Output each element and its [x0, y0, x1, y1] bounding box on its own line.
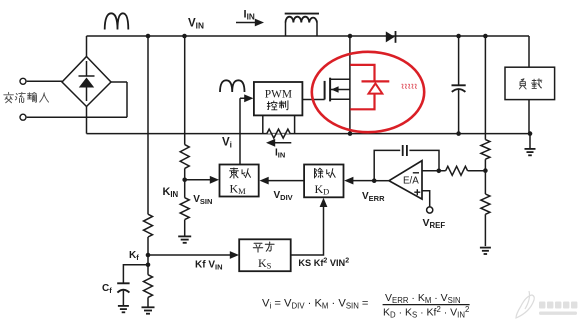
capacitor C out: [458, 36, 460, 134]
wire squarer to divider: [291, 204, 324, 255]
wire EA inverting input: [422, 170, 446, 172]
resistor KIN: [180, 145, 189, 169]
squarer box 平方 KS: [239, 239, 291, 271]
waveform rectified-sine icon small: [220, 80, 245, 92]
capacitor Cf: [117, 282, 129, 284]
node EA inverting input junction: [437, 169, 442, 174]
resistor Kf lower: [144, 275, 153, 298]
wire ground stub right: [529, 134, 531, 149]
node VERR junction: [372, 178, 377, 183]
wire VERR to divider: [350, 180, 374, 182]
ground divider: [480, 247, 491, 249]
wire EA feedback loop: [374, 150, 439, 180]
resistor VSIN: [180, 198, 189, 220]
capacitor EA feedback: [402, 145, 404, 156]
PWM controller box: [254, 82, 303, 115]
node bottom rail junctions: [528, 131, 533, 136]
wire EA noninverting to VREF: [422, 191, 430, 207]
divider box 除以 KD: [304, 165, 343, 198]
resistor divider upper: [481, 140, 490, 160]
node output divider tap: [483, 168, 488, 173]
transistor Q MOSFET: [349, 36, 351, 134]
waveform rectified-sine icon top: [105, 13, 129, 29]
wire top rail VIN: [87, 36, 530, 57]
svg-text:PWM: PWM: [265, 88, 292, 100]
red body diode: [362, 80, 390, 82]
wire AC bottom lead: [27, 82, 127, 117]
wire VSIN to multiplier: [185, 179, 213, 181]
op-amp E/A: [389, 161, 422, 200]
wire PWM sense legs: [263, 115, 295, 133]
wire EA output VERR node: [374, 180, 389, 182]
wire Vi multiplier output to PWM: [240, 98, 247, 164]
wire output divider: [484, 36, 486, 246]
wire bottom return rail: [87, 107, 531, 134]
svg-text:KD · KS · Kf2 · VIN2: KD · KS · Kf2 · VIN2: [383, 305, 469, 320]
AC terminal top: [20, 78, 26, 84]
bridge inner diode: [79, 61, 95, 101]
VREF terminal: [427, 207, 433, 213]
diode D boost: [386, 31, 395, 42]
wire VDIV divider to multiplier: [265, 180, 304, 182]
watermark logo: [516, 291, 534, 318]
red highlight ellipse: [312, 52, 424, 132]
node VSIN tap: [182, 178, 187, 183]
wire AC top lead: [27, 80, 62, 82]
node Kf tap: [146, 253, 151, 258]
AC terminal bottom: [20, 114, 26, 120]
svg-text:E/A: E/A: [403, 175, 419, 186]
wire Kf branch: [147, 36, 149, 307]
EA minus sign: [413, 172, 419, 174]
ground output rail: [525, 148, 536, 150]
inductor L boost: [286, 23, 318, 37]
multiplier box 乘以 KM: [220, 165, 259, 197]
resistor divider lower: [481, 194, 490, 214]
load box 负载: [505, 67, 555, 99]
red body diode loop: [350, 65, 374, 109]
bridge rectifier diamond: [62, 57, 111, 107]
wire KIN branch: [184, 36, 186, 236]
ground Kf: [142, 306, 155, 308]
wire Kf to squarer: [148, 254, 233, 256]
node top rail junctions: [146, 34, 151, 39]
ground Cf: [118, 305, 129, 307]
wire Cf branch: [123, 265, 148, 306]
resistor Kf upper: [144, 214, 153, 237]
EA plus sign: [414, 189, 420, 195]
wire to load: [528, 36, 530, 134]
resistor R sense: [267, 129, 290, 138]
red squiggle marks: [402, 84, 417, 88]
arrow IIN sense: [272, 142, 291, 144]
resistor EA feedback: [446, 166, 468, 175]
ground VSIN: [178, 235, 191, 237]
